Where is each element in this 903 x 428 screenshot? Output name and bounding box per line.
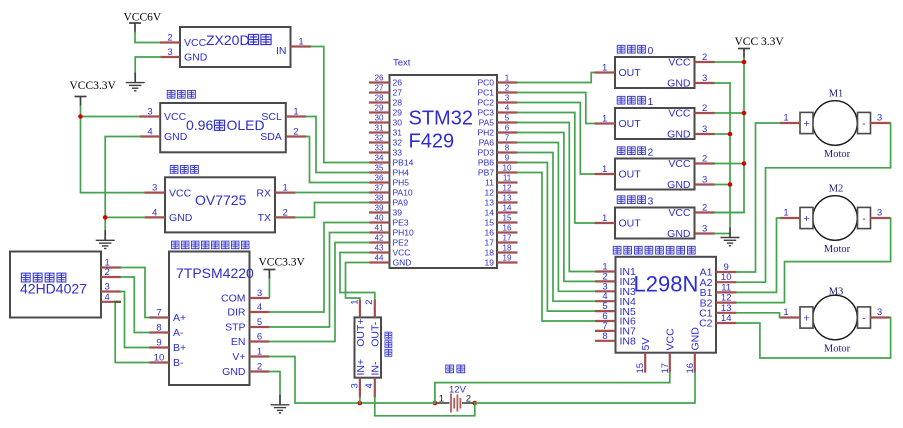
svg-text:M1: M1	[829, 89, 844, 100]
svg-text:PC0: PC0	[477, 78, 494, 88]
STM32 pin 11 stub	[497, 181, 518, 183]
svg-text:GND: GND	[184, 52, 208, 64]
ground below sensor GND rail	[721, 228, 740, 246]
svg-text:31: 31	[393, 128, 403, 138]
svg-text:-: -	[862, 213, 866, 225]
wire OV7725 TX to STM32 pin38 PA9	[296, 203, 370, 218]
L298N pin 2 IN2 stub	[595, 280, 616, 282]
motor M1 plus terminal box	[800, 112, 813, 133]
svg-text:VCC: VCC	[169, 187, 192, 199]
svg-text:1: 1	[648, 96, 654, 108]
battery plate long 2	[456, 395, 458, 412]
ground below OLED/OV rail	[96, 230, 115, 248]
svg-text:A+: A+	[173, 312, 186, 324]
STM32 pin 30 stub	[369, 121, 390, 123]
svg-text:2: 2	[702, 103, 707, 114]
transformer pin 4 IN- stub	[374, 378, 376, 398]
wire ZX20D GND to ground	[135, 57, 161, 73]
svg-text:2: 2	[466, 393, 471, 404]
svg-text:VCC: VCC	[668, 108, 691, 120]
motor M3 circle	[813, 295, 858, 340]
wire sensor2 VCC to rail	[715, 163, 744, 165]
svg-text:GND: GND	[393, 258, 412, 268]
label CJK 传感器2	[617, 147, 625, 155]
svg-text:37: 37	[375, 183, 384, 192]
sensor0 pin 1 OUT stub	[595, 71, 616, 73]
wire STM32 pin3 PC2 to sensor2 OUT	[518, 103, 595, 175]
sensor3 box	[615, 208, 695, 239]
svg-text:GND: GND	[222, 366, 246, 378]
OLED pin 3 VCC stub	[140, 115, 161, 117]
L298N pin 11 B1 stub	[716, 291, 737, 293]
svg-text:VCC: VCC	[393, 248, 411, 258]
42HD4027 label line1 步进电机	[21, 273, 30, 282]
STM32 pin 36 stub	[369, 181, 390, 183]
svg-text:PA10: PA10	[393, 188, 413, 198]
svg-text:GND: GND	[667, 78, 691, 90]
svg-text:VCC: VCC	[668, 158, 691, 170]
svg-text:39: 39	[375, 203, 384, 212]
STM32 pin 29 stub	[369, 111, 390, 113]
svg-text:Motor: Motor	[824, 344, 851, 355]
svg-text:33: 33	[375, 143, 384, 152]
svg-text:STP: STP	[225, 322, 245, 334]
motor M2 plus terminal box	[800, 207, 813, 228]
wire STM32 pin6 PH2 to L298N IN2	[518, 133, 596, 282]
wire sensor1 VCC to rail	[715, 112, 744, 114]
motor M1 minus terminal box	[858, 112, 871, 133]
svg-text:2: 2	[702, 154, 707, 165]
svg-text:GND: GND	[169, 212, 193, 224]
svg-text:GND: GND	[667, 228, 691, 240]
svg-text:3: 3	[877, 113, 882, 124]
svg-text:1: 1	[602, 164, 607, 175]
svg-text:PH10: PH10	[393, 228, 415, 238]
motor M2 circle	[813, 196, 858, 241]
label CJK 传感器1	[617, 96, 625, 104]
motor driver L298N box	[616, 257, 717, 353]
svg-text:7: 7	[156, 308, 161, 319]
svg-text:3: 3	[702, 73, 707, 84]
svg-text:GND: GND	[164, 131, 188, 143]
junction GND rail sensor1	[728, 132, 733, 137]
svg-text:1: 1	[783, 113, 788, 124]
svg-text:32: 32	[393, 138, 403, 148]
svg-text:4: 4	[147, 127, 152, 138]
svg-text:3: 3	[505, 93, 510, 102]
STM32 pin 18 stub	[497, 251, 518, 253]
motor M3 minus terminal box	[858, 307, 871, 328]
svg-text:44: 44	[375, 253, 384, 262]
svg-text:OUT: OUT	[619, 67, 642, 79]
STM32 pin 44 stub	[369, 261, 390, 263]
svg-text:35: 35	[375, 163, 384, 172]
L298N pin 14 C2 stub	[716, 322, 737, 324]
svg-text:COM: COM	[221, 293, 246, 305]
svg-text:+: +	[804, 213, 810, 225]
7TPSM pin 6 EN stub	[250, 340, 270, 342]
wire M3 minus to L298N C2	[737, 318, 891, 359]
svg-text:RX: RX	[256, 187, 271, 199]
svg-text:14: 14	[503, 203, 512, 212]
svg-text:4: 4	[152, 207, 157, 218]
svg-text:PC1: PC1	[477, 88, 494, 98]
transformer pin 2 OUT- stub	[374, 300, 376, 318]
wire STM32 pin4 PC3 to sensor3 OUT	[518, 113, 595, 224]
L298N pin 6 IN6 stub	[595, 320, 616, 322]
power symbol VCC6V bar	[129, 23, 141, 33]
sensor3 pin 2 VCC stub	[695, 211, 716, 213]
battery plate short 2	[459, 398, 461, 409]
STM32 pin 26 stub	[369, 81, 390, 83]
svg-text:7: 7	[505, 133, 510, 142]
svg-text:40: 40	[375, 213, 384, 222]
STM32 pin 28 stub	[369, 101, 390, 103]
42HD pin 1 stub	[101, 266, 121, 268]
svg-text:14: 14	[485, 208, 495, 218]
7TPSM pin 3 COM stub	[250, 297, 270, 299]
svg-text:1: 1	[257, 347, 262, 358]
wire STM32 pin5 PA5 to L298N IN1	[518, 123, 596, 272]
svg-text:1: 1	[298, 37, 303, 48]
motor M2 minus terminal box	[858, 207, 871, 228]
svg-text:27: 27	[375, 83, 384, 92]
wire L298N A1 to M1 plus	[737, 123, 780, 272]
svg-text:11: 11	[485, 178, 494, 188]
STM32 pin 15 stub	[497, 221, 518, 223]
svg-text:B+: B+	[173, 342, 186, 354]
OLED pin 2 SDA stub	[286, 135, 307, 137]
label CJK 减速电机驱动模块	[613, 246, 621, 254]
sensor2 pin 1 OUT stub	[595, 173, 616, 175]
svg-text:PE3: PE3	[393, 218, 409, 228]
svg-text:9: 9	[156, 338, 161, 349]
wire 7TPSM STP to STM32 pin41 PH10	[270, 233, 370, 328]
svg-text:OLED: OLED	[227, 117, 265, 133]
junction battery pin 2	[473, 401, 478, 406]
svg-text:IN-: IN-	[370, 361, 382, 376]
battery plate long 1	[450, 394, 452, 413]
svg-text:28: 28	[393, 98, 403, 108]
STM32 pin 19 stub	[497, 261, 518, 263]
svg-text:IN8: IN8	[620, 336, 637, 348]
wire VCC 3.3V rail right	[715, 58, 744, 213]
STM32 pin 27 stub	[369, 91, 390, 93]
svg-text:2: 2	[293, 127, 298, 138]
sensor2 pin 2 VCC stub	[695, 162, 716, 164]
svg-text:2: 2	[105, 267, 110, 278]
wire STM32 pin44 GND to transformer OUT+	[346, 263, 370, 301]
svg-text:13: 13	[503, 193, 512, 202]
wire STM32 pin8 PD3 to L298N IN4	[518, 153, 596, 302]
STM32 pin 16 stub	[497, 231, 518, 233]
svg-text:34: 34	[375, 153, 384, 162]
wire L298N C1 to M3 plus	[737, 313, 780, 318]
svg-text:B-: B-	[173, 357, 184, 369]
svg-text:STM32: STM32	[409, 108, 473, 130]
svg-text:16: 16	[485, 228, 495, 238]
battery pin 1 lead	[435, 402, 450, 404]
svg-text:0.96: 0.96	[186, 117, 213, 133]
wire sensor3 GND to rail	[715, 233, 730, 235]
svg-text:19: 19	[485, 258, 495, 268]
transformer pin 3 IN+ stub	[359, 378, 361, 398]
STM32 pin 41 stub	[369, 231, 390, 233]
svg-text:6: 6	[257, 332, 262, 343]
power symbol VCC3.3V bar at stepper	[263, 270, 275, 280]
junction GND rail sensor2	[728, 182, 733, 187]
svg-text:PD3: PD3	[477, 148, 494, 158]
svg-text:M2: M2	[829, 184, 844, 195]
svg-text:11: 11	[503, 173, 512, 182]
svg-text:1: 1	[783, 307, 788, 318]
wire OV7725 RX to STM32 pin37 PA10	[296, 192, 370, 194]
svg-text:PC3: PC3	[477, 108, 494, 118]
wire sensor0 VCC to rail	[715, 61, 744, 63]
svg-text:VCC3.3V: VCC3.3V	[70, 80, 117, 92]
STM32 pin 10 stub	[497, 171, 518, 173]
svg-text:28: 28	[375, 93, 384, 102]
svg-text:2: 2	[167, 33, 172, 44]
7TPSM pin 1 V+ stub	[250, 355, 270, 357]
STM32 pin 5 stub	[497, 121, 518, 123]
ZX20D pin 3 GND stub	[160, 56, 180, 58]
motor M3 pin 3 stub	[871, 316, 891, 318]
svg-text:VCC: VCC	[668, 57, 691, 69]
sensor3 pin 1 OUT stub	[595, 222, 616, 224]
STM32 pin 34 stub	[369, 161, 390, 163]
STM32 pin 1 stub	[497, 81, 518, 83]
transformer pin 1 OUT+ stub	[359, 300, 361, 318]
svg-text:PH4: PH4	[393, 168, 410, 178]
OLED pin 1 SCL stub	[286, 115, 307, 117]
svg-text:OUT: OUT	[619, 218, 642, 230]
svg-text:14: 14	[721, 313, 732, 324]
svg-text:3: 3	[702, 224, 707, 235]
svg-text:PB7: PB7	[478, 168, 494, 178]
wire battery pin2 to L298N GND	[475, 373, 695, 403]
wire transformer IN- loop to battery pin2	[375, 398, 475, 416]
wire 7TPSM GND to ground	[270, 372, 281, 395]
svg-text:2: 2	[702, 203, 707, 214]
L298N pin 3 IN3 stub	[595, 290, 616, 292]
svg-text:OV7725: OV7725	[195, 192, 247, 208]
OLED display box	[160, 103, 286, 152]
svg-text:7TPSM4220: 7TPSM4220	[176, 265, 254, 281]
wire OLED SCL to STM32 pin35 PH4	[307, 117, 370, 173]
svg-text:4: 4	[364, 383, 375, 388]
wire GND rail right	[729, 83, 731, 228]
stepper driver 7TPSM4220 box	[169, 252, 250, 386]
wire 7TPSM V+ to bottom rail	[270, 357, 435, 404]
svg-text:OUT+: OUT+	[355, 319, 367, 347]
ground below ZX20D	[126, 73, 145, 91]
STM32 pin 42 stub	[369, 241, 390, 243]
svg-text:VCC6V: VCC6V	[124, 12, 162, 24]
svg-text:26: 26	[375, 73, 384, 82]
svg-text:2: 2	[702, 52, 707, 63]
svg-text:+: +	[804, 312, 810, 324]
svg-text:VCC 3.3V: VCC 3.3V	[735, 36, 785, 48]
STM32 pin 35 stub	[369, 171, 390, 173]
motor M3 pin 1 stub	[780, 316, 800, 318]
svg-text:TX: TX	[258, 212, 271, 224]
wire 42HD pin1 to A+	[121, 268, 149, 318]
svg-text:EN: EN	[231, 336, 246, 348]
sensor1 box	[615, 108, 695, 139]
wire 42HD pin4 to B-	[115, 302, 149, 363]
svg-text:0: 0	[648, 45, 654, 57]
sensor0 pin 3 GND stub	[695, 82, 716, 84]
svg-text:V+: V+	[232, 351, 245, 363]
svg-text:1: 1	[439, 393, 444, 404]
svg-text:1: 1	[505, 73, 510, 82]
7TPSM pin 10 B- stub	[149, 361, 169, 363]
STM32 pin 2 stub	[497, 91, 518, 93]
svg-text:17: 17	[485, 238, 495, 248]
svg-text:GND: GND	[690, 327, 702, 351]
svg-text:8: 8	[156, 323, 161, 334]
svg-text:3: 3	[877, 208, 882, 219]
svg-text:16: 16	[503, 223, 512, 232]
STM32 pin 7 stub	[497, 141, 518, 143]
L298N pin 15 5V stub	[644, 353, 646, 373]
svg-text:PH2: PH2	[477, 128, 494, 138]
STM32 pin 4 stub	[497, 111, 518, 113]
wire VCC3.3V rail left	[81, 106, 145, 193]
junction GND rail / OV GND	[103, 215, 108, 220]
svg-text:1: 1	[293, 107, 298, 118]
STM32 pin 38 stub	[369, 201, 390, 203]
svg-text:3: 3	[349, 383, 360, 388]
L298N pin 13 C1 stub	[716, 312, 737, 314]
svg-text:18: 18	[485, 248, 495, 258]
junction VCC rail / OLED VCC	[78, 114, 83, 119]
OV7725 camera box	[165, 177, 275, 232]
svg-text:VCC: VCC	[665, 328, 677, 351]
wire OLED GND to GND rail	[105, 137, 140, 231]
STM32 pin 14 stub	[497, 211, 518, 213]
svg-text:VCC: VCC	[668, 207, 691, 219]
svg-text:VCC: VCC	[184, 37, 207, 49]
svg-text:2: 2	[648, 147, 654, 159]
svg-text:1: 1	[783, 208, 788, 219]
svg-text:36: 36	[375, 173, 384, 182]
STM32 pin 40 stub	[369, 221, 390, 223]
svg-text:38: 38	[375, 193, 384, 202]
svg-text:PA6: PA6	[479, 138, 495, 148]
L298N pin 17 VCC stub	[669, 353, 671, 373]
svg-text:42HD4027: 42HD4027	[20, 281, 87, 297]
svg-text:VCC: VCC	[164, 111, 187, 123]
svg-text:5: 5	[257, 317, 262, 328]
ground below 7TPSM GND	[271, 395, 290, 413]
motor M2 pin 3 stub	[871, 217, 891, 219]
svg-text:5V: 5V	[640, 338, 652, 351]
svg-text:4: 4	[257, 302, 262, 313]
svg-text:PB6: PB6	[478, 158, 494, 168]
wire STM32 pin2 PC1 to sensor1 OUT	[518, 93, 595, 124]
L298N pin 7 IN7 stub	[595, 330, 616, 332]
wire M2 minus to L298N B2	[737, 218, 891, 303]
L298N pin 5 IN5 stub	[595, 310, 616, 312]
sensor1 pin 2 VCC stub	[695, 112, 716, 114]
svg-text:L298N: L298N	[634, 272, 699, 297]
STM32 pin 43 stub	[369, 251, 390, 253]
label CJK 变压器 vertical	[385, 332, 392, 339]
svg-text:4: 4	[505, 103, 510, 112]
svg-text:Motor: Motor	[824, 244, 851, 255]
battery pin 2 lead	[462, 402, 475, 404]
svg-text:-: -	[862, 312, 866, 324]
junction transformer IN+ on bottom rail	[358, 401, 363, 406]
svg-text:PA5: PA5	[479, 118, 495, 128]
L298N pin 9 A1 stub	[716, 271, 737, 273]
42HD pin 4 stub	[101, 301, 121, 303]
STM32 pin 39 stub	[369, 211, 390, 213]
svg-text:4: 4	[105, 292, 110, 303]
L298N pin 8 IN8 stub	[595, 340, 616, 342]
sensor3 pin 3 GND stub	[695, 232, 716, 234]
wire ZX20D IN to STM32 pin34 PB14	[311, 47, 369, 163]
MCU U1 STM32F429 box	[390, 75, 498, 268]
OV7725 pin 1 RX stub	[275, 192, 296, 194]
svg-text:32: 32	[375, 133, 384, 142]
wire STM32 pin7 PA6 to L298N IN3	[518, 143, 596, 292]
7TPSM pin 4 DIR stub	[250, 311, 270, 313]
ZX20D pin 1 IN stub	[291, 45, 312, 47]
wire VCC6V to ZX20D VCC pin 2	[135, 33, 161, 43]
42HD pin 3 stub	[101, 290, 121, 292]
junction VCC rail sensor1	[742, 111, 747, 116]
junction VCC rail sensor2	[742, 161, 747, 166]
motor M1 pin 3 stub	[871, 122, 891, 124]
power symbol VCC 3.3V bar right	[738, 49, 750, 59]
svg-text:30: 30	[375, 113, 384, 122]
wire battery pin1 to L298N VCC	[435, 373, 670, 403]
svg-text:43: 43	[375, 243, 384, 252]
svg-text:15: 15	[503, 213, 512, 222]
svg-text:Motor: Motor	[824, 149, 851, 160]
wire sensor0 GND to rail	[715, 82, 730, 84]
svg-text:3: 3	[648, 196, 654, 208]
svg-text:DIR: DIR	[227, 307, 246, 319]
motor M1 pin 1 stub	[780, 122, 800, 124]
svg-text:+: +	[804, 118, 810, 130]
label 显示屏 display	[167, 90, 175, 98]
svg-text:PC2: PC2	[477, 98, 494, 108]
svg-text:GND: GND	[667, 129, 691, 141]
wire overlap mark at 42HD pin4	[114, 301, 121, 303]
STM32 pin 3 stub	[497, 101, 518, 103]
transformer box	[355, 317, 382, 377]
svg-text:3: 3	[702, 175, 707, 186]
sensor2 box	[615, 159, 695, 190]
svg-text:5: 5	[505, 113, 510, 122]
OV7725 pin 4 GND stub	[145, 216, 166, 218]
svg-text:OUT: OUT	[619, 118, 642, 130]
ZX20D pin 2 VCC stub	[160, 41, 180, 43]
STM32 pin 6 stub	[497, 131, 518, 133]
battery plate short 1	[453, 398, 455, 409]
sensor0 pin 2 VCC stub	[695, 61, 716, 63]
wire M1 minus to L298N A2	[737, 123, 891, 282]
wire VCC rail tap to OLED VCC	[81, 116, 141, 118]
STM32 pin 13 stub	[497, 201, 518, 203]
junction VCC rail sensor0	[742, 60, 747, 65]
svg-text:1: 1	[349, 300, 360, 305]
STM32 pin 8 stub	[497, 151, 518, 153]
